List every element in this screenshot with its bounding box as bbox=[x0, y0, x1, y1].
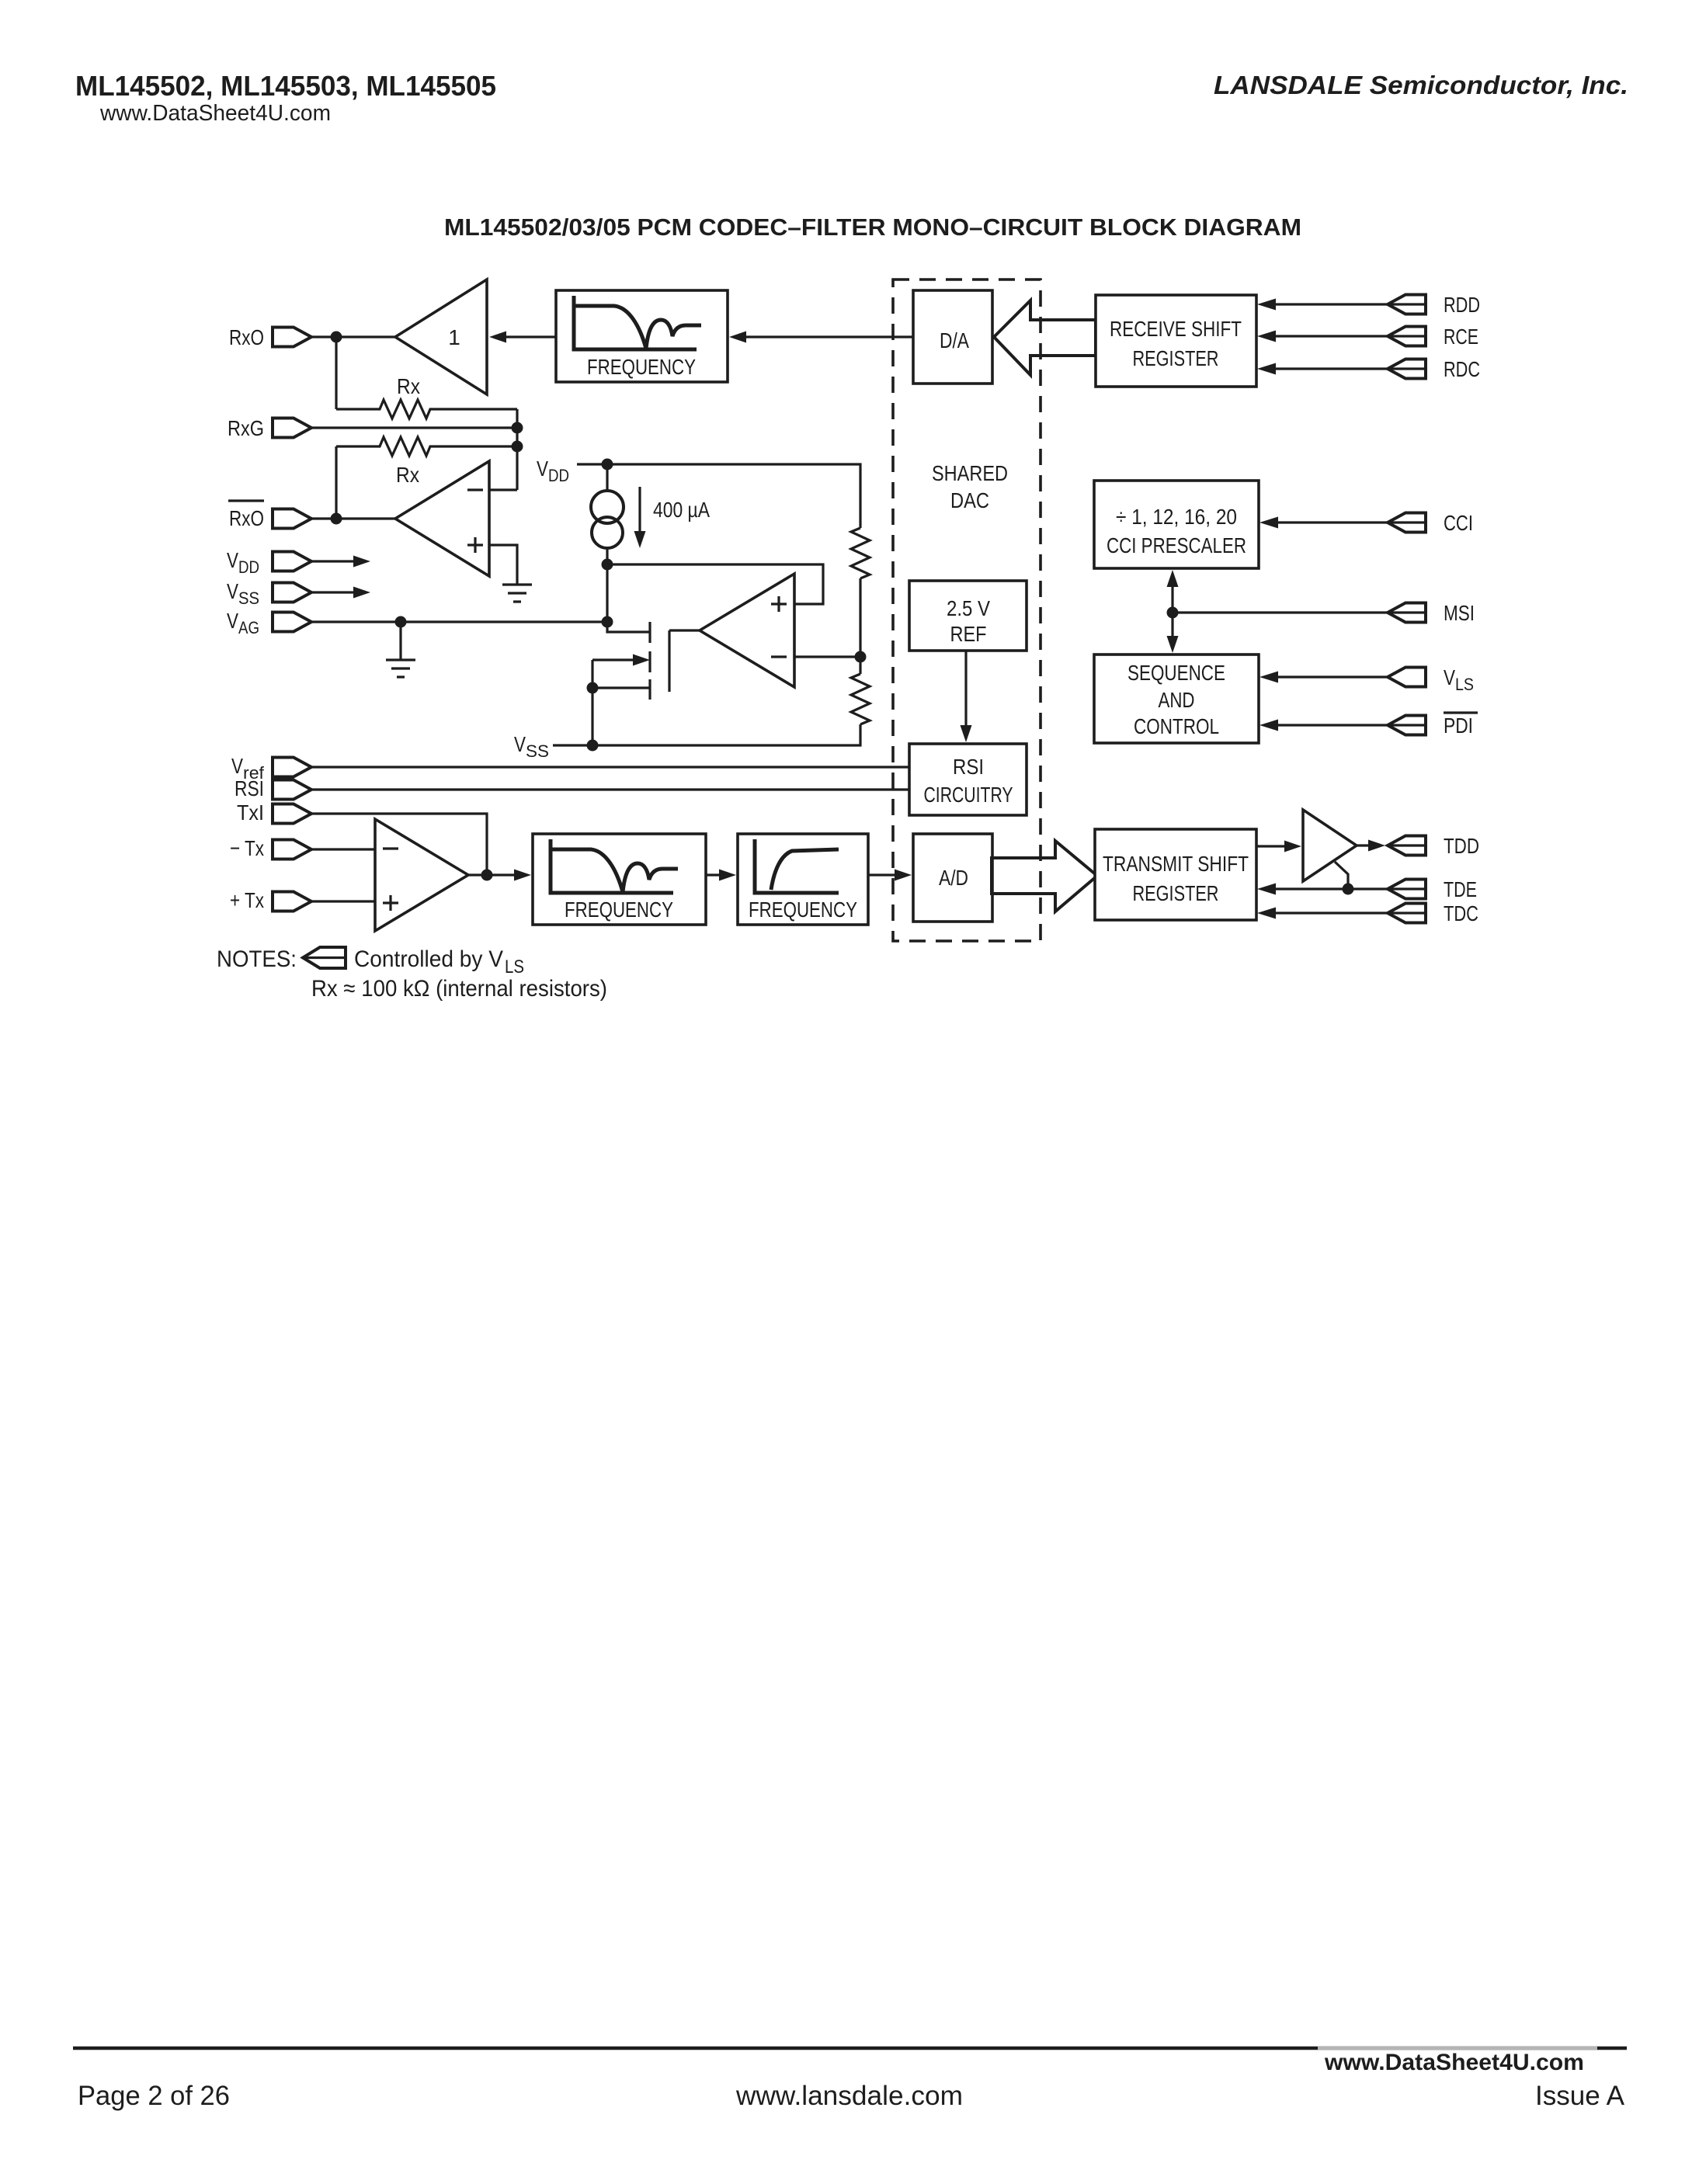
vertical junction wire bbox=[516, 409, 518, 490]
wire to op-amp U3 non-inverting input bbox=[607, 564, 823, 604]
svg-text:Page 2 of 26: Page 2 of 26 bbox=[78, 2081, 230, 2111]
transmit high-pass filter block bbox=[738, 834, 868, 925]
wire CCI bbox=[1278, 521, 1388, 523]
op-amp U2 (RxO-bar driver) bbox=[395, 461, 489, 576]
svg-text:RSI: RSI bbox=[235, 776, 264, 800]
wire VLS bbox=[1278, 675, 1388, 678]
node MSI bbox=[1167, 607, 1179, 619]
arrowhead into RSI circuitry bbox=[961, 725, 972, 742]
wire U4 output bbox=[468, 873, 514, 876]
svg-text:LS: LS bbox=[505, 957, 524, 977]
svg-text:LANSDALE Semiconductor, Inc.: LANSDALE Semiconductor, Inc. bbox=[1214, 71, 1628, 99]
svg-text:REGISTER: REGISTER bbox=[1133, 881, 1219, 905]
wire bulk/source down to VSS rail bbox=[591, 660, 593, 745]
CCI prescaler block bbox=[1094, 481, 1259, 568]
node RxO-bar bbox=[331, 513, 342, 525]
pin RxO bbox=[273, 328, 311, 347]
svg-text:REF: REF bbox=[950, 622, 987, 646]
plus sign U2 bbox=[467, 537, 483, 553]
minus sign U3 bbox=[771, 655, 787, 658]
svg-text:÷ 1, 12, 16, 20: ÷ 1, 12, 16, 20 bbox=[1116, 505, 1237, 529]
svg-text:SHARED: SHARED bbox=[932, 461, 1008, 485]
svg-text:FREQUENCY: FREQUENCY bbox=[749, 898, 857, 922]
wire U2 non-inverting input to ground bbox=[489, 545, 517, 585]
resistor Rx (upper) bbox=[336, 400, 517, 418]
wire VDD rail top bbox=[577, 464, 860, 528]
svg-text:www.DataSheet4U.com: www.DataSheet4U.com bbox=[1324, 2050, 1584, 2075]
resistor upper (divider) bbox=[851, 528, 870, 578]
minus sign U2 bbox=[467, 488, 483, 491]
svg-text:FREQUENCY: FREQUENCY bbox=[565, 898, 673, 922]
svg-text:Controlled by V: Controlled by V bbox=[354, 946, 503, 972]
wire REF to RSI circuitry bbox=[964, 651, 967, 725]
svg-text:TDC: TDC bbox=[1444, 901, 1478, 925]
arrowhead into high-pass filter bbox=[719, 870, 736, 881]
pin TDE bbox=[1388, 880, 1426, 899]
wire D/A to receive filter bbox=[746, 335, 913, 338]
wire TxI to output node bbox=[311, 814, 487, 875]
node VDD rail bbox=[602, 459, 613, 470]
svg-text:RCE: RCE bbox=[1444, 325, 1478, 349]
wire VDD arrow bbox=[311, 560, 355, 562]
notes pin symbol bbox=[303, 947, 346, 968]
svg-text:Rx: Rx bbox=[396, 463, 419, 487]
pin TDD bbox=[1388, 836, 1426, 856]
double arrow prescaler/sequence bbox=[1171, 582, 1173, 641]
svg-text:V: V bbox=[1444, 665, 1455, 689]
svg-text:V: V bbox=[231, 754, 243, 778]
wire to high-pass filter bbox=[706, 873, 721, 876]
plus sign U3 bbox=[771, 596, 787, 612]
wire to A/D bbox=[868, 873, 896, 876]
svg-text:ML145502/03/05 PCM CODEC–FILTE: ML145502/03/05 PCM CODEC–FILTER MONO–CIR… bbox=[444, 214, 1301, 241]
hollow bus arrow (transmit data) bbox=[992, 841, 1097, 911]
enable wire to TDE bbox=[1335, 862, 1348, 889]
wire TDE bbox=[1276, 887, 1388, 890]
wire U3 inverting input bbox=[794, 655, 860, 658]
arrowhead VSS bbox=[353, 587, 370, 599]
wire -Tx bbox=[311, 848, 375, 850]
node Q1 source bbox=[587, 682, 599, 694]
svg-text:SS: SS bbox=[238, 589, 259, 608]
svg-text:V: V bbox=[514, 732, 526, 756]
op-amp U3 bbox=[700, 574, 794, 687]
minus sign U4 bbox=[383, 847, 398, 849]
node RxO bbox=[331, 332, 342, 343]
svg-text:TDD: TDD bbox=[1444, 834, 1479, 858]
plus sign U4 bbox=[383, 895, 398, 911]
buffer amp gain 1 bbox=[395, 280, 487, 394]
pin RSI bbox=[273, 780, 311, 800]
svg-text:AG: AG bbox=[238, 618, 259, 637]
pin RDC bbox=[1388, 359, 1426, 379]
RECEIVE SHIFT REGISTER block bbox=[1096, 295, 1256, 387]
wire current source to VAG node bbox=[606, 564, 608, 622]
pin TDC bbox=[1388, 904, 1426, 923]
svg-text:RxO: RxO bbox=[229, 506, 264, 530]
svg-text:RDD: RDD bbox=[1444, 293, 1480, 317]
wire PDI bbox=[1278, 724, 1388, 726]
svg-text:DD: DD bbox=[238, 557, 259, 577]
svg-text:Issue A: Issue A bbox=[1535, 2081, 1625, 2111]
wire RxG pin line bbox=[311, 426, 517, 429]
D/A converter block bbox=[913, 290, 992, 384]
svg-text:CIRCUITRY: CIRCUITRY bbox=[924, 783, 1013, 807]
pin VSS bbox=[273, 583, 311, 602]
svg-text:1: 1 bbox=[448, 325, 460, 349]
svg-text:RSI: RSI bbox=[953, 755, 984, 779]
source wire bbox=[592, 686, 650, 689]
wire Vref to RSI circuitry bbox=[311, 766, 909, 768]
SEQUENCE AND CONTROL block bbox=[1094, 655, 1259, 743]
svg-text:REGISTER: REGISTER bbox=[1133, 346, 1219, 370]
svg-text:TxI: TxI bbox=[237, 800, 264, 825]
svg-text:V: V bbox=[227, 548, 238, 572]
svg-text:CONTROL: CONTROL bbox=[1134, 714, 1219, 738]
ground (VAG) bbox=[386, 622, 415, 677]
2.5V reference block bbox=[909, 581, 1027, 651]
svg-text:AND: AND bbox=[1159, 688, 1195, 712]
svg-text:400 µA: 400 µA bbox=[653, 498, 710, 522]
svg-text:TRANSMIT SHIFT: TRANSMIT SHIFT bbox=[1103, 852, 1249, 876]
hollow bus arrow (receive data) bbox=[994, 300, 1096, 375]
wire RCE bbox=[1276, 335, 1388, 337]
wire MSI bbox=[1173, 611, 1388, 613]
pin -Tx bbox=[273, 840, 311, 859]
output buffer amp bbox=[1303, 810, 1357, 881]
arrowhead into buffer bbox=[489, 332, 506, 343]
svg-text:SEQUENCE: SEQUENCE bbox=[1127, 661, 1225, 685]
wire buffer to TDD bbox=[1357, 844, 1370, 846]
pin RxO-bar bbox=[273, 509, 311, 529]
svg-text:www.lansdale.com: www.lansdale.com bbox=[735, 2081, 963, 2111]
svg-text:+ Tx: + Tx bbox=[230, 888, 264, 912]
TRANSMIT SHIFT REGISTER block bbox=[1095, 829, 1256, 920]
wire filter to buffer bbox=[506, 335, 556, 338]
footer rule bbox=[73, 2047, 1627, 2050]
svg-text:CCI PRESCALER: CCI PRESCALER bbox=[1107, 533, 1246, 557]
svg-text:A/D: A/D bbox=[939, 866, 968, 890]
RSI circuitry block bbox=[909, 744, 1027, 815]
svg-text:DD: DD bbox=[548, 466, 569, 485]
pin MSI bbox=[1388, 603, 1426, 623]
svg-text:Rx ≈ 100 kΩ (internal resistor: Rx ≈ 100 kΩ (internal resistors) bbox=[311, 976, 607, 1002]
wire divider bottom to VSS rail bbox=[553, 724, 860, 745]
wire RDC bbox=[1276, 367, 1388, 370]
svg-text:V: V bbox=[537, 457, 548, 481]
A/D converter block bbox=[913, 834, 992, 922]
wire U2 output to RxO-bar pin bbox=[311, 517, 395, 519]
ground (U2 input) bbox=[502, 585, 532, 602]
wire resistor to RxO-bar node bbox=[335, 446, 337, 519]
current source 400uA bbox=[606, 464, 608, 491]
svg-text:D/A: D/A bbox=[940, 328, 969, 352]
svg-text:TDE: TDE bbox=[1444, 877, 1477, 901]
pin Vref bbox=[273, 758, 311, 777]
arrowhead into A/D bbox=[895, 870, 912, 881]
op-amp U4 (transmit) bbox=[375, 819, 468, 931]
wire RDD bbox=[1276, 303, 1388, 305]
svg-text:RxO: RxO bbox=[229, 325, 264, 349]
transmit low-pass filter block bbox=[533, 834, 706, 925]
pin PDI bbox=[1388, 716, 1426, 735]
svg-text:MSI: MSI bbox=[1444, 601, 1475, 625]
wire U2 inverting input bbox=[489, 488, 517, 491]
svg-text:LS: LS bbox=[1455, 675, 1474, 694]
pin VDD bbox=[273, 552, 311, 571]
svg-text:NOTES:: NOTES: bbox=[217, 946, 297, 972]
svg-text:PDI: PDI bbox=[1444, 714, 1473, 738]
pin +Tx bbox=[273, 892, 311, 911]
node VAG drain tap bbox=[602, 616, 613, 628]
pin RDD bbox=[1388, 295, 1426, 314]
wire VAG bbox=[311, 620, 607, 623]
svg-text:FREQUENCY: FREQUENCY bbox=[587, 355, 696, 379]
pin RxG bbox=[273, 418, 311, 438]
svg-text:RxG: RxG bbox=[228, 416, 264, 440]
node VAG ground tap bbox=[395, 616, 407, 628]
wire TDC bbox=[1276, 911, 1388, 914]
transistor Q1 (MOSFET) bbox=[607, 622, 650, 632]
receive low-pass filter block bbox=[556, 290, 728, 382]
svg-text:RDC: RDC bbox=[1444, 357, 1480, 381]
wire RxO node down to resistor bbox=[335, 337, 337, 409]
wire register to output buffer bbox=[1256, 845, 1286, 847]
svg-text:− Tx: − Tx bbox=[230, 836, 264, 860]
node below current source bbox=[602, 559, 613, 571]
svg-text:2.5 V: 2.5 V bbox=[947, 596, 990, 620]
node resistor divider tap bbox=[855, 651, 867, 663]
resistor lower (divider) bbox=[851, 674, 870, 724]
svg-text:V: V bbox=[227, 609, 238, 633]
svg-text:ML145502, ML145503, ML145505: ML145502, ML145503, ML145505 bbox=[75, 70, 496, 102]
arrowhead VDD bbox=[353, 556, 370, 568]
node TDE junction bbox=[1343, 884, 1354, 895]
pin RCE bbox=[1388, 327, 1426, 346]
pin CCI bbox=[1388, 513, 1426, 533]
bulk arrow wire bbox=[592, 658, 634, 661]
svg-text:CCI: CCI bbox=[1444, 511, 1473, 535]
svg-text:SS: SS bbox=[526, 741, 549, 761]
arrowhead into transmit filter bbox=[514, 870, 531, 881]
pin TxI bbox=[273, 804, 311, 824]
node RxG junction bbox=[512, 422, 523, 434]
current arrow 400uA bbox=[638, 487, 641, 533]
pin VLS bbox=[1388, 668, 1426, 687]
wire RSI to RSI circuitry bbox=[311, 788, 909, 790]
wire between resistors bbox=[859, 578, 861, 674]
svg-text:Rx: Rx bbox=[397, 374, 420, 398]
wire VSS arrow bbox=[311, 591, 355, 593]
arrowhead into receive filter bbox=[729, 332, 746, 343]
svg-text:DAC: DAC bbox=[950, 488, 989, 512]
node Rx lower right bbox=[512, 441, 523, 453]
node VSS rail bbox=[587, 740, 599, 752]
svg-text:www.DataSheet4U.com: www.DataSheet4U.com bbox=[99, 101, 331, 126]
resistor Rx (lower) bbox=[336, 437, 517, 456]
node TxI/output junction bbox=[481, 870, 493, 881]
dashed boundary SHARED DAC bbox=[893, 280, 1041, 941]
svg-text:V: V bbox=[227, 579, 238, 603]
wire +Tx bbox=[311, 900, 375, 902]
pin VAG bbox=[273, 613, 311, 632]
wire buffer to RxO pin bbox=[311, 335, 395, 338]
svg-text:RECEIVE SHIFT: RECEIVE SHIFT bbox=[1110, 317, 1242, 341]
